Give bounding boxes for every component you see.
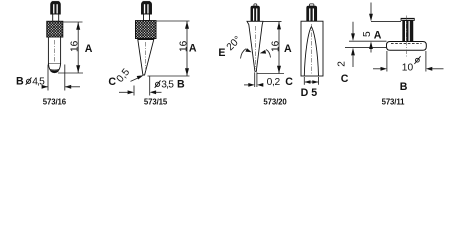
dim 5 fig4: arrows <box>370 3 372 15</box>
svg-text:10: 10 <box>402 62 414 73</box>
disc hidden line fig4 <box>391 43 422 45</box>
dim 16 fig3: extension lines <box>263 21 282 23</box>
svg-text:16: 16 <box>70 40 81 52</box>
svg-text:B: B <box>400 81 408 93</box>
cone tip fig2 <box>138 40 154 76</box>
svg-text:16: 16 <box>178 40 189 52</box>
svg-text:A: A <box>374 30 382 42</box>
dim 0,2 fig3: arrows <box>244 84 249 86</box>
cone 20deg fig3 <box>247 21 263 71</box>
svg-text:A: A <box>85 43 93 55</box>
stem (striped) fig4 <box>403 21 413 42</box>
leader arc right 20deg fig3 <box>266 50 271 58</box>
dim ø3,5 fig2: arrows <box>119 91 128 93</box>
neck fig2 <box>144 14 150 21</box>
ext line disc face fig4 <box>345 47 387 49</box>
svg-text:16: 16 <box>270 40 281 52</box>
centerline fig3 <box>255 26 257 69</box>
nub fig3b <box>310 4 314 6</box>
cap (striped knob) fig3b <box>307 6 317 21</box>
svg-text:0,5: 0,5 <box>115 67 133 85</box>
svg-text:C: C <box>341 73 349 85</box>
dim 2 fig4: arrows <box>352 22 354 34</box>
centerline fig4 <box>405 16 407 59</box>
svg-text:3,5: 3,5 <box>161 79 174 90</box>
leader arrow 0,5 fig2 <box>131 77 142 82</box>
label ø4,5 fig1 <box>27 79 31 83</box>
svg-text:2: 2 <box>336 61 347 67</box>
ext line disc top fig4 <box>349 40 387 42</box>
dim 0,2 fig3: extension lines <box>254 72 256 87</box>
svg-text:5: 5 <box>311 87 317 99</box>
dim ø10 fig4: extension lines <box>386 51 388 72</box>
leader arc left 20deg fig3 <box>241 49 247 59</box>
centerline fig1 <box>54 40 56 70</box>
dim 16 fig3: vertical + arrows <box>278 22 280 74</box>
dim 16 fig2: vertical + arrows <box>186 21 188 76</box>
svg-text:0,2: 0,2 <box>267 77 281 88</box>
stem flange fig4 <box>401 18 414 20</box>
label ø3,5 fig2 <box>156 82 160 86</box>
svg-text:A: A <box>189 43 197 55</box>
svg-text:A: A <box>284 43 292 55</box>
svg-text:573/15: 573/15 <box>144 97 168 106</box>
dim 16 fig1: extension lines <box>63 21 83 23</box>
svg-text:573/16: 573/16 <box>43 97 67 106</box>
svg-text:D: D <box>301 87 309 99</box>
dim D5 fig3b: double arrow <box>305 81 318 83</box>
svg-text:573/20: 573/20 <box>263 97 287 106</box>
cap (striped knob) fig2 <box>142 1 152 14</box>
knurled body fig1 <box>47 21 63 37</box>
cylinder (bell) fig3b <box>301 21 323 76</box>
ext line stem top fig4 <box>371 21 401 23</box>
svg-text:B: B <box>177 79 185 91</box>
centerline fig3b <box>311 24 313 74</box>
dim 16 fig2: extension lines <box>156 20 190 22</box>
svg-text:C: C <box>285 76 293 88</box>
dim 16 fig1: vertical line + arrows <box>77 22 79 73</box>
knurled body fig2 <box>136 21 157 39</box>
dim ø4,5 fig1: extension lines <box>47 65 49 91</box>
svg-text:B: B <box>16 75 24 87</box>
dim ø10 fig4: arrows <box>373 68 381 70</box>
cap (striped knob) fig1 <box>51 1 61 14</box>
cap (striped knob) fig3 <box>251 6 259 21</box>
nub fig3 <box>254 4 257 6</box>
svg-text:E: E <box>218 47 225 59</box>
neck fig1 <box>53 14 59 21</box>
svg-text:20°: 20° <box>225 34 244 53</box>
disc fig4 <box>387 42 427 51</box>
svg-text:5: 5 <box>362 31 373 37</box>
label ø fig4 (slanted) <box>416 58 420 62</box>
dim ø4,5 fig1: arrows <box>44 86 49 88</box>
dim D5 fig3b: extension lines <box>303 77 305 85</box>
dome tip fig1 <box>48 64 60 73</box>
inner arch fig3b <box>304 27 318 76</box>
centerline fig2 <box>145 42 147 71</box>
svg-text:573/11: 573/11 <box>382 97 406 106</box>
cylinder body fig1 <box>48 37 60 64</box>
dim ø3,5 fig2: extension lines <box>133 86 135 96</box>
